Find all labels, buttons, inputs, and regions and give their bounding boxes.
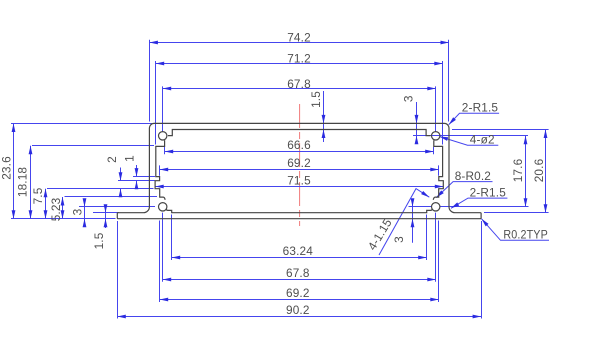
svg-text:90.2: 90.2 [286,303,310,317]
svg-text:69.2: 69.2 [287,156,311,170]
dimension 1 rib height [122,155,155,189]
profile floor with boss pads [166,209,432,213]
svg-text:3: 3 [71,208,85,215]
dimension 18.18 [16,146,155,219]
dimension 67.8 hole spacing top [163,77,436,132]
svg-text:74.2: 74.2 [287,30,311,44]
svg-text:1.5: 1.5 [92,232,106,249]
vertical centerline (red dashed) [299,104,301,226]
dimension 71.2 [156,52,443,145]
svg-text:2: 2 [105,156,119,163]
label 4-1.15 boss slot width [365,189,430,255]
dimension 69.2 inner width [160,156,439,176]
label 8-R0.2 rib corner radii [435,169,493,199]
svg-text:71.5: 71.5 [287,174,311,188]
dimension 66.6 inner width [165,138,434,154]
dimension 1.5 top wall thickness [309,91,325,142]
svg-text:R0.2TYP: R0.2TYP [503,228,548,242]
dimension 5.23 [49,197,157,222]
svg-text:1.5: 1.5 [309,91,323,108]
dimension 23.6 overall height [0,124,152,219]
screw hole bottom-right [432,203,440,211]
dimension 2 rib step [105,156,155,197]
dimension 3 top hole offset [402,95,528,144]
svg-text:18.18: 18.18 [16,167,30,198]
label R0.2TYP flange corner [480,218,549,242]
svg-text:7.5: 7.5 [31,187,45,204]
dimension 69.2 width bottom [160,221,439,303]
profile outer body and flange outline [117,123,481,218]
profile right wall inner face with rib and steps [433,140,443,200]
svg-text:1: 1 [122,155,136,162]
screw hole top-left [159,132,167,140]
dimension 67.8 hole spacing bottom [163,213,436,282]
dimension 3 bottom hole offset left [71,198,155,227]
dimension 74.2 overall body width [149,30,449,121]
profile inner ceiling with screw-boss notches [168,130,431,136]
screw hole top-right [432,132,440,140]
dimension 17.6 hole center spacing [440,136,529,207]
svg-text:23.6: 23.6 [0,156,13,180]
svg-text:67.8: 67.8 [287,77,311,91]
profile left wall inner face with rib and steps [155,140,165,200]
svg-text:71.2: 71.2 [287,52,311,66]
dimension 7.5 [31,187,154,218]
screw hole bottom-left [159,203,167,211]
svg-text:20.6: 20.6 [532,158,546,182]
label 2-R1.5 top corner radii [447,100,499,126]
svg-text:4-ø2: 4-ø2 [470,132,495,146]
svg-text:2-R1.5: 2-R1.5 [470,185,507,199]
dimension 71.5 inner width [155,174,443,189]
svg-text:17.6: 17.6 [511,158,525,182]
svg-text:3: 3 [392,236,406,243]
svg-text:8-R0.2: 8-R0.2 [455,169,491,183]
svg-text:2-R1.5: 2-R1.5 [462,100,499,114]
dimension 3 bottom hole offset right [392,198,432,243]
svg-text:66.6: 66.6 [287,138,311,152]
label 4-Φ2 screw holes [439,132,498,146]
label 2-R1.5 bottom fillets [450,185,507,210]
dimension 63.24 floor width [172,215,427,261]
svg-text:69.2: 69.2 [286,286,310,300]
svg-text:3: 3 [402,95,416,102]
svg-text:5.23: 5.23 [49,197,63,221]
dimension 20.6 cavity height [452,130,549,213]
svg-text:63.24: 63.24 [283,244,314,258]
dimension 1.5 flange thickness [92,204,119,249]
svg-text:67.8: 67.8 [286,266,310,280]
dimension 90.2 flange overall width [117,221,481,319]
